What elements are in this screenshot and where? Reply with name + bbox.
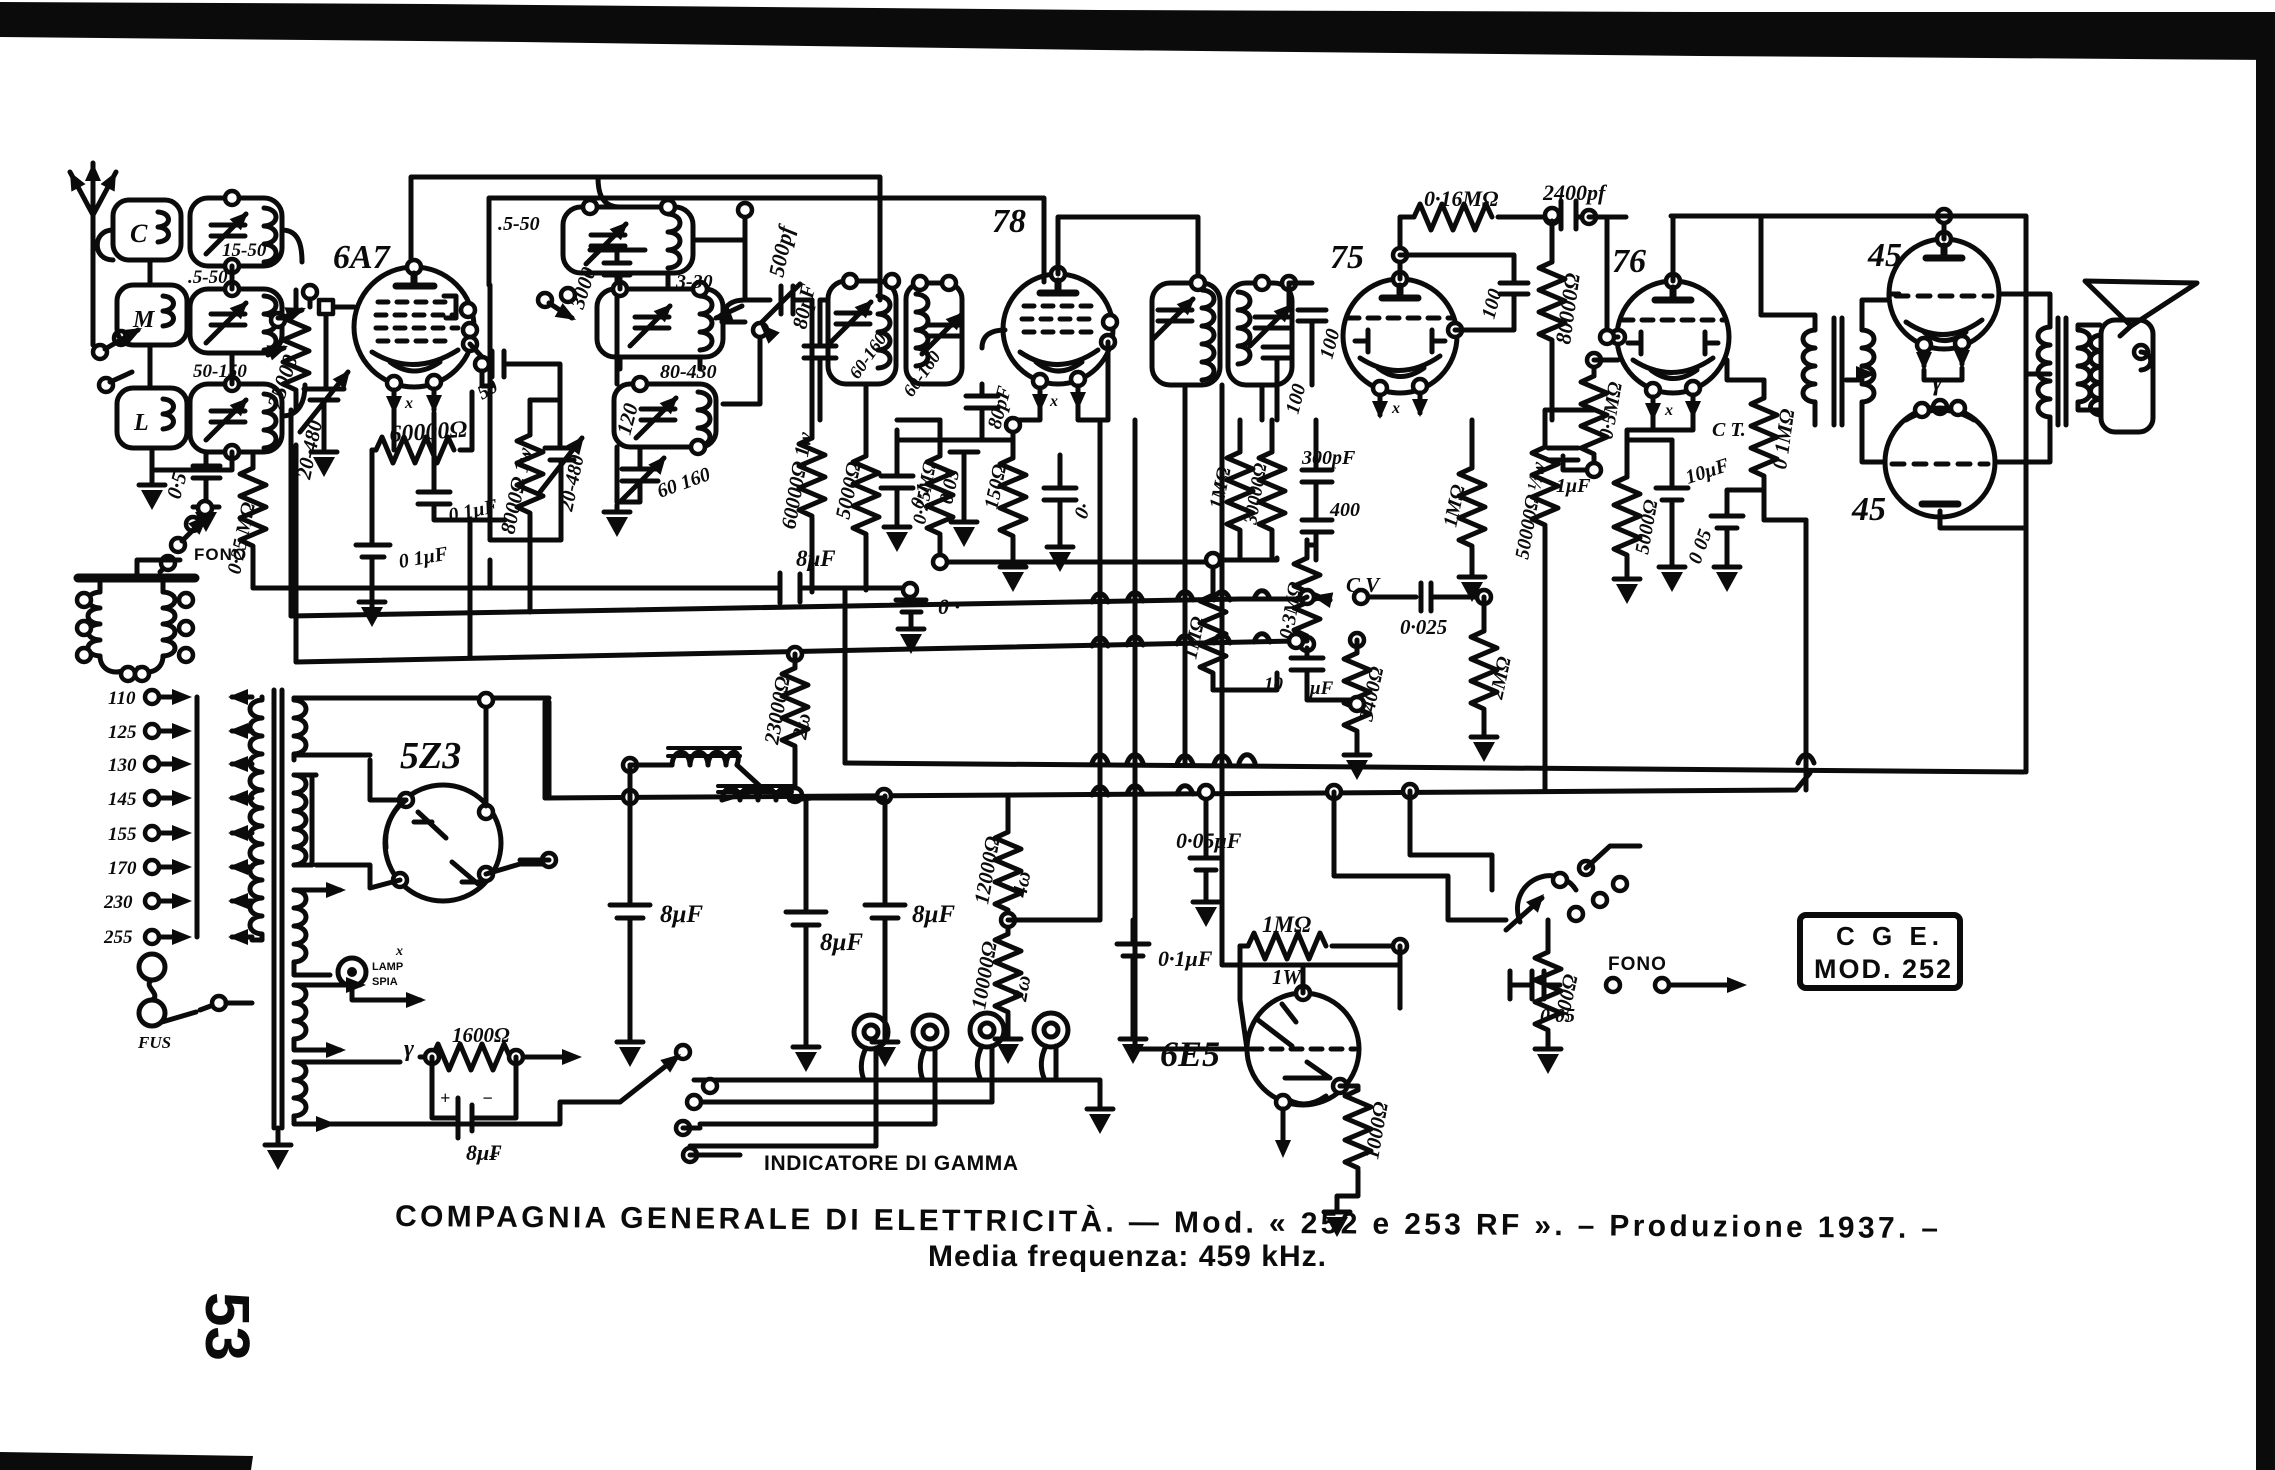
power transformer rectifier filament winding	[294, 775, 316, 865]
76 plate loop to transformer	[1673, 216, 1761, 315]
power transformer bias winding	[294, 977, 366, 1058]
resistor 8000 ohm 1w	[517, 400, 543, 540]
svg-text:130: 130	[108, 755, 137, 776]
band switch contacts	[620, 1045, 740, 1162]
svg-text:.5-50: .5-50	[188, 267, 228, 288]
svg-text:75: 75	[1330, 239, 1364, 276]
padder capacitor 3000	[590, 250, 645, 502]
svg-text:110: 110	[108, 688, 136, 709]
76 grid wire	[1589, 217, 1618, 344]
capacitor 0.05uF	[1190, 785, 1222, 927]
capacitor 0.1uF output	[1117, 920, 1149, 1064]
power transformer filament-45 winding	[294, 1062, 400, 1132]
svg-text:LAMP: LAMP	[372, 961, 403, 973]
bus line2 CV wiper	[291, 597, 1307, 616]
capacitor 0.025	[1354, 583, 1491, 611]
svg-text:M: M	[132, 307, 156, 333]
svg-text:45: 45	[1867, 237, 1902, 274]
svg-text:2ω: 2ω	[1007, 973, 1035, 1003]
svg-text:x: x	[1391, 400, 1400, 417]
phono input transformer	[77, 560, 195, 681]
capacitor 80pF primary	[804, 300, 836, 420]
svg-text:6E5: 6E5	[1160, 1034, 1220, 1074]
humdinger 1600 ohm	[404, 1036, 545, 1070]
arrow out of humdinger	[545, 1049, 582, 1065]
svg-text:80-430: 80-430	[660, 361, 717, 383]
capacitor 0.1uF (osc)	[418, 413, 505, 520]
capacitor 100 (75 plate)	[1455, 283, 1528, 330]
filter capacitor 8uF no3	[865, 796, 905, 1067]
transformer ground	[265, 1128, 291, 1170]
heater run to switch	[330, 1102, 620, 1124]
resistor 30000 ohm	[1259, 420, 1285, 560]
svg-text:Media frequenza: 459 kHz.: Media frequenza: 459 kHz.	[928, 1240, 1328, 1273]
svg-text:8μF: 8μF	[660, 901, 703, 928]
riser from interstage to B-	[1804, 520, 1809, 790]
capacitor 0.05	[950, 440, 978, 547]
svg-text:2400pf: 2400pf	[1542, 180, 1608, 205]
svg-text:0·16MΩ: 0·16MΩ	[1424, 186, 1499, 211]
resistor 3400 ohm	[1344, 633, 1370, 780]
resistor 5000 ohm	[853, 384, 879, 590]
svg-text:FUS: FUS	[137, 1033, 171, 1052]
svg-text:300pF: 300pF	[1301, 447, 1356, 469]
svg-text:MOD. 252: MOD. 252	[1814, 954, 1953, 984]
svg-text:+: +	[440, 1088, 450, 1108]
bias cell 8uF	[432, 1057, 516, 1138]
svg-text:15-50: 15-50	[222, 240, 267, 261]
top bus A	[411, 177, 880, 300]
resistor 5000 ohm 76	[1614, 440, 1640, 604]
top bus right section	[1671, 216, 2026, 772]
rectifier 5Z3	[385, 785, 501, 901]
resistor 1Mohm b	[1459, 420, 1485, 602]
resistor 0.16 Mohm feedback	[1393, 204, 1552, 283]
HV winding top lead	[520, 702, 556, 867]
bleeder resistor 12000 ohm 4w	[995, 798, 1100, 934]
tube 75	[1343, 272, 1462, 419]
svg-text:SPIA: SPIA	[372, 976, 398, 988]
tuning capacitor 20-480	[300, 307, 356, 477]
76 cathode wiring	[1545, 360, 1806, 520]
fuse FUS	[139, 954, 252, 1026]
svg-text:1MΩ: 1MΩ	[1262, 912, 1311, 937]
antenna coil C box	[113, 200, 181, 260]
capacitor 100 (IF2 bottom)	[1263, 347, 1291, 420]
resistor 0.25 Mohm IF	[927, 420, 1213, 569]
pilot lamp	[338, 944, 426, 1008]
capacitor 80pF secondary	[966, 384, 998, 440]
volume pot 0.3Mohm CV	[1294, 540, 1333, 648]
svg-text:400: 400	[1329, 499, 1360, 521]
long vertical risers IF/detector	[1100, 385, 1262, 1046]
grid coupling capacitor 50	[470, 344, 520, 386]
antenna coil M box	[117, 285, 187, 345]
dial lamp 1	[854, 1015, 888, 1146]
svg-text:125: 125	[108, 722, 137, 743]
dial lamp 2	[913, 1015, 947, 1124]
ground under input coils	[139, 470, 165, 510]
resistor 0.1Mohm	[1751, 380, 1777, 520]
trimmer box 50-150	[190, 377, 282, 459]
svg-text:3-30: 3-30	[675, 271, 713, 293]
svg-text:0·025: 0·025	[1400, 615, 1447, 639]
5Z3 cathode output	[312, 758, 637, 888]
svg-text:2ω: 2ω	[787, 711, 815, 741]
tube 76	[1611, 274, 1729, 421]
bus line3 AVC return	[296, 634, 1307, 662]
6E5 plate riser	[1303, 965, 1400, 1008]
scanner black top bar	[0, 2, 2275, 60]
svg-text:INDICATORE DI GAMMA: INDICATORE DI GAMMA	[764, 1152, 1020, 1175]
bus line1 phono/ground	[253, 573, 917, 603]
resistor 1Mohm c	[1200, 580, 1226, 690]
svg-text:50-150: 50-150	[193, 361, 247, 382]
IF transformer 1 primary box	[828, 274, 899, 384]
phono jack FONO	[1606, 977, 1747, 993]
FONO switch left	[160, 501, 214, 572]
svg-text:x: x	[404, 395, 413, 412]
capacitor 300pF	[1302, 420, 1332, 512]
tube 78	[1003, 267, 1117, 412]
svg-text:145: 145	[108, 789, 137, 810]
5Z3 plate loop	[294, 693, 549, 806]
oscillator coil box 5-50	[563, 200, 693, 273]
resistor 0.25 MΩ	[240, 455, 266, 588]
input wiring left	[97, 230, 232, 470]
volume potentiometer 25000	[266, 290, 309, 410]
antenna coil L box	[117, 388, 187, 448]
AVC cluster wiring	[1206, 512, 1330, 690]
ground capacitor 0	[896, 600, 926, 654]
vertical from line1 to B+ bus	[843, 591, 848, 763]
magic eye 6E5	[1247, 986, 1359, 1158]
svg-text:1W: 1W	[1272, 965, 1303, 989]
lamp selector lines	[694, 1080, 1056, 1146]
dial lamp 3	[970, 1013, 1004, 1102]
svg-text:8μF: 8μF	[820, 929, 863, 956]
grid wire from band switch to 6A7	[271, 285, 354, 327]
bleeder resistor 10000 ohm 2w	[995, 934, 1021, 1064]
tuning capacitor 20-480 osc	[540, 400, 590, 500]
svg-text:8μF: 8μF	[912, 901, 955, 928]
6E5 target feed	[1222, 792, 1303, 965]
svg-text:C: C	[130, 219, 148, 248]
capacitor 10uF 76	[1656, 440, 1688, 592]
filter capacitor 8uF no1	[610, 765, 650, 1067]
cathode resistor 1000 ohm	[1324, 946, 1400, 1237]
AVC resistor 1Mohm a	[1227, 420, 1253, 560]
svg-text:53: 53	[192, 1292, 261, 1361]
45 plate and grid wiring	[1885, 209, 2050, 528]
nameplate box CGE MOD 252	[1800, 915, 1960, 988]
scanner black right edge bar	[2256, 12, 2275, 1470]
svg-text:0·05μF: 0·05μF	[1176, 828, 1242, 853]
interstage transformer	[1761, 300, 1889, 462]
capacitor 100 (IF2 top)	[1289, 283, 1326, 385]
capacitor bias 78	[1044, 455, 1076, 572]
78 screen/cathode wiring	[866, 330, 1108, 440]
trimmer box 5-50	[190, 282, 282, 353]
resistor 23000 ohm 2w	[782, 647, 808, 802]
capacitor 0.05 76	[1711, 490, 1764, 592]
svg-text:45: 45	[1851, 491, 1886, 528]
top bus B	[489, 198, 1044, 285]
78 plate loop	[1058, 217, 1198, 283]
bus B- second	[545, 702, 1810, 804]
filter choke 1	[630, 748, 762, 788]
resistor 60000 ohm (osc grid leak)	[372, 392, 472, 492]
svg-text:FONO: FONO	[1608, 954, 1667, 975]
svg-text:4ω: 4ω	[1007, 869, 1035, 899]
output transformer	[2026, 318, 2100, 425]
tube 6A7	[354, 260, 477, 414]
resistor 1Mohm 1W	[1240, 933, 1407, 1049]
antenna switch contacts	[93, 321, 146, 392]
trimmer 60-160 below osc	[604, 447, 672, 537]
svg-text:μF: μF	[1309, 678, 1334, 699]
resistor 0.5Mohm	[1581, 353, 1607, 470]
6E5 grid line	[1135, 1047, 1247, 1052]
power tube 45 lower	[1885, 400, 1995, 517]
filter choke 2	[718, 786, 884, 800]
trimmer box 15-50	[190, 191, 282, 273]
svg-text:230: 230	[103, 892, 133, 913]
hop bumps on buses	[1092, 755, 1814, 795]
svg-text:0 05: 0 05	[1540, 1005, 1575, 1027]
svg-text:1600Ω: 1600Ω	[452, 1023, 510, 1047]
capacitor 1uF	[1548, 448, 1601, 477]
power tube 45 upper	[1889, 232, 1999, 370]
svg-text:1μF: 1μF	[1556, 475, 1591, 497]
svg-text:5Z3: 5Z3	[400, 735, 461, 777]
svg-text:γ: γ	[404, 1036, 414, 1062]
svg-text:0·1μF: 0·1μF	[1158, 946, 1213, 971]
oscillator section wiring	[490, 177, 767, 588]
capacitor 0.1 IF	[881, 440, 913, 552]
oscillator coil box 3-30	[597, 282, 723, 357]
resistor 50000 ohm half watt	[1532, 420, 1558, 789]
selector common rail	[145, 689, 197, 945]
resistor 60000 ohm 1w	[799, 300, 825, 590]
svg-text:C G E.: C G E.	[1836, 921, 1944, 951]
antenna	[63, 163, 123, 345]
capacitor 0.1uF lower	[356, 492, 390, 627]
svg-text:.5-50: .5-50	[498, 213, 540, 235]
svg-text:78: 78	[992, 203, 1026, 240]
wire coil boxes to switch	[278, 230, 305, 416]
capacitor 0.5	[193, 452, 220, 532]
capacitor 500pF	[745, 284, 812, 344]
svg-text:8μ₣: 8μ₣	[466, 1140, 502, 1165]
capacitor 10uF	[1291, 637, 1357, 700]
svg-text:x: x	[1664, 402, 1673, 419]
filter capacitor 8uF no2	[786, 798, 826, 1072]
resistor 150 ohm cathode	[1000, 430, 1026, 592]
hop bumps on AVC lines	[1092, 591, 1270, 646]
left risers to buses	[291, 410, 812, 662]
volume control assembly	[1506, 846, 1640, 930]
svg-text:76: 76	[1612, 243, 1646, 280]
svg-text:255: 255	[103, 927, 133, 948]
svg-text:170: 170	[108, 858, 137, 879]
bus B+ main	[845, 591, 2024, 772]
resistor 2Mohm	[1471, 597, 1497, 762]
svg-text:x: x	[395, 944, 403, 959]
svg-text:L: L	[133, 410, 149, 436]
svg-text:60000Ω: 60000Ω	[389, 417, 469, 448]
resistor 300 ohm	[1535, 920, 1561, 1074]
svg-text:−: −	[482, 1088, 493, 1108]
wire bus to volume pot	[1334, 791, 1506, 920]
dial lamp 4	[1034, 1013, 1068, 1080]
svg-text:x: x	[1049, 393, 1058, 410]
IF transformer 2 primary box	[1152, 276, 1220, 385]
loudspeaker	[2085, 281, 2197, 432]
oscillator coil box 80-430	[614, 377, 716, 454]
IF transformer 1 secondary box	[906, 276, 970, 384]
capacitor 2400pF	[1545, 201, 1626, 229]
svg-text:155: 155	[108, 824, 137, 845]
svg-text:C T.: C T.	[1712, 419, 1746, 441]
lamp return ground	[1056, 1080, 1113, 1134]
svg-text:6A7: 6A7	[333, 239, 392, 276]
power transformer core	[274, 690, 282, 1128]
IF transformer 2 secondary box	[1228, 276, 1298, 385]
voltage selector labels	[103, 688, 137, 948]
resistor 80000 ohm	[1539, 208, 1565, 420]
phono output capacitor 0.05	[1510, 971, 1560, 999]
power transformer primary winding	[250, 697, 262, 940]
capacitor 400	[1302, 520, 1332, 560]
scanner black bottom-left strip	[0, 1452, 253, 1470]
svg-text:8μF: 8μF	[796, 546, 836, 571]
power transformer HV secondary	[294, 698, 306, 760]
primary tap arrows	[228, 689, 252, 945]
power transformer 6.3V winding	[294, 882, 346, 975]
